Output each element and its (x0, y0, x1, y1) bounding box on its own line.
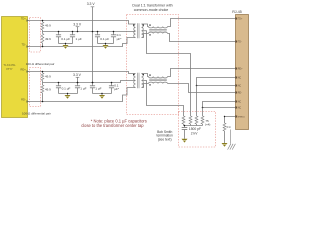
svg-text:(×4): (×4) (205, 122, 210, 126)
svg-text:3.3 V: 3.3 V (73, 23, 82, 27)
svg-text:close to the transformer cente: close to the transformer center tap (81, 123, 144, 128)
svg-text:PHY: PHY (6, 67, 12, 71)
svg-text:NC: NC (238, 107, 242, 109)
svg-text:TD+: TD+ (21, 17, 26, 21)
svg-text:common-mode choke: common-mode choke (134, 8, 169, 12)
svg-text:NC: NC (238, 101, 242, 103)
svg-text:100-Ω differential pair: 100-Ω differential pair (22, 112, 51, 116)
svg-text:49.9: 49.9 (45, 74, 51, 78)
svg-text:µF*: µF* (117, 37, 123, 41)
svg-text:2 kV: 2 kV (191, 131, 198, 135)
svg-text:SHIELD: SHIELD (238, 116, 246, 118)
svg-text:49.9: 49.9 (45, 87, 51, 91)
svg-text:0 Ω: 0 Ω (227, 126, 231, 129)
svg-text:RD+: RD+ (21, 68, 27, 72)
svg-text:1 µF: 1 µF (80, 86, 86, 90)
svg-text:TD-: TD- (238, 41, 242, 43)
svg-text:3.3 V: 3.3 V (87, 2, 96, 6)
svg-text:0.1 µF: 0.1 µF (62, 86, 71, 90)
svg-text:RJ-45: RJ-45 (232, 10, 242, 14)
svg-text:1 µF: 1 µF (76, 37, 82, 41)
svg-text:1 µF: 1 µF (95, 86, 101, 90)
svg-text:49.9: 49.9 (45, 23, 51, 27)
svg-text:TD+: TD+ (238, 18, 243, 20)
svg-text:0.1 µF: 0.1 µF (61, 37, 70, 41)
svg-text:Dual 1:1 transformer with: Dual 1:1 transformer with (132, 4, 172, 8)
svg-text:NC: NC (238, 85, 242, 87)
svg-text:µF*: µF* (114, 87, 120, 91)
svg-text:49.9: 49.9 (45, 37, 51, 41)
svg-text:TD-: TD- (21, 43, 25, 47)
svg-text:100-Ω differential pair: 100-Ω differential pair (26, 62, 55, 66)
svg-text:RD-: RD- (21, 98, 26, 102)
svg-text:RD+: RD+ (238, 68, 243, 70)
svg-text:3.3 V: 3.3 V (73, 73, 82, 77)
svg-text:NC: NC (238, 77, 242, 79)
svg-text:RD-: RD- (238, 92, 242, 94)
svg-text:(see text): (see text) (158, 137, 172, 141)
svg-text:0.1 µF: 0.1 µF (100, 37, 109, 41)
